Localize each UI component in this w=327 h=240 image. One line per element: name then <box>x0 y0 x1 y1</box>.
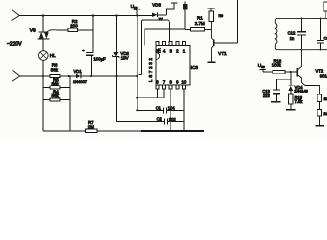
ground bar under C13 <box>271 101 280 103</box>
svg-text:9014: 9014 <box>320 74 327 79</box>
svg-text:1N4148: 1N4148 <box>294 89 308 94</box>
power Ucc symbol left <box>133 10 141 16</box>
resistor R7 <box>86 129 98 132</box>
row y98.3 to left vertical <box>137 97 157 99</box>
svg-text:7.5k: 7.5k <box>295 99 304 104</box>
svg-text:~220V: ~220V <box>7 42 22 48</box>
svg-text:1k: 1k <box>323 112 327 116</box>
svg-text:8k: 8k <box>324 97 327 101</box>
transistor VT1 <box>212 22 214 41</box>
IC3 body <box>156 46 190 86</box>
resistor R2 <box>57 29 94 31</box>
pin 10 down to bottom bus <box>183 89 185 131</box>
wire: top AC line <box>19 15 152 17</box>
wire y32 loop: left stub to dark resistor column <box>145 9 185 45</box>
wire: down to triac VS <box>42 16 44 32</box>
svg-text:2M: 2M <box>88 125 94 130</box>
svg-text:HL: HL <box>50 53 56 58</box>
svg-text:VD3: VD3 <box>152 3 161 8</box>
svg-text:200: 200 <box>70 23 78 28</box>
triac VS <box>38 30 57 39</box>
resistor R6 <box>50 74 60 77</box>
input arrow top <box>12 10 20 21</box>
wire: triac to lamp <box>42 39 44 51</box>
wire loop to IC pin 3 top <box>139 20 170 75</box>
svg-text:Ucc: Ucc <box>258 63 265 69</box>
top right clipped resistor <box>324 2 327 11</box>
left bus down <box>42 76 44 131</box>
svg-text:2.7M: 2.7M <box>195 21 205 26</box>
IC bottom pin stubs <box>156 85 159 89</box>
U loop pins 6,7 to row <box>158 89 165 98</box>
resistor R4 <box>50 98 60 101</box>
svg-text:1n: 1n <box>290 36 295 41</box>
svg-text:56k: 56k <box>52 81 60 86</box>
wire jog C13 to VD4 column <box>276 78 291 80</box>
svg-text:R1: R1 <box>197 16 203 21</box>
ground bar under R19 <box>286 109 295 111</box>
svg-text:1N4007: 1N4007 <box>73 79 88 84</box>
svg-text:10: 10 <box>182 79 187 84</box>
dark resistor box top right <box>183 4 187 9</box>
svg-text:C2: C2 <box>157 117 163 122</box>
zener column continues to C2 row <box>117 76 159 122</box>
svg-text:VS: VS <box>30 27 36 32</box>
pin 8 down to bottom bus <box>170 89 172 131</box>
bottom bus <box>43 130 141 132</box>
input arrow bottom <box>12 70 20 81</box>
power bar above VT1 <box>207 8 215 11</box>
emitter resistor 1 <box>317 94 321 101</box>
IC top pin stubs <box>156 42 159 46</box>
node junction cap column <box>92 14 94 16</box>
svg-text:100k: 100k <box>272 63 282 68</box>
svg-text:C1: C1 <box>324 36 327 41</box>
emitter resistor 2 <box>317 110 321 117</box>
svg-text:104: 104 <box>168 106 176 111</box>
antenna vertical <box>237 0 239 43</box>
svg-text:VD1: VD1 <box>74 69 83 74</box>
right bus of stack <box>69 76 71 131</box>
lamp HL <box>39 51 49 61</box>
svg-text:IC3: IC3 <box>191 65 199 70</box>
capacitor C2 row <box>159 121 184 123</box>
right column capacitor (in x320 column) <box>320 18 322 40</box>
svg-text:15V: 15V <box>121 55 129 60</box>
wire: lamp down to line2 <box>42 60 44 76</box>
wire down from R2 node <box>92 16 94 53</box>
capacitor C1 row <box>137 109 184 111</box>
svg-text:56k: 56k <box>51 68 59 73</box>
svg-text:LS7232: LS7232 <box>148 56 153 82</box>
resistor R19 vertical <box>289 94 293 104</box>
diode VD4 <box>290 72 292 79</box>
wire: bottom AC line <box>20 75 138 77</box>
node junctions on bottom AC line <box>42 75 44 77</box>
zener diode VD2 <box>116 16 118 53</box>
node junction zener column <box>115 14 117 16</box>
power bar above VD3 <box>167 3 178 15</box>
svg-text:100μF: 100μF <box>93 57 106 62</box>
resistor R5 <box>50 86 60 89</box>
svg-text:223: 223 <box>263 93 271 98</box>
transistor VT2 <box>296 68 298 77</box>
svg-text:Ucc: Ucc <box>131 4 138 10</box>
vertical from line1 to U-row <box>136 16 138 111</box>
svg-text:56k: 56k <box>52 93 60 98</box>
capacitor C12 <box>301 18 303 31</box>
svg-text:C1: C1 <box>156 105 162 110</box>
svg-text:VT1: VT1 <box>218 51 227 56</box>
ground bar bottom right <box>315 125 324 127</box>
capacitor C13 <box>275 79 277 89</box>
svg-text:R9: R9 <box>219 14 224 18</box>
LC tank inductor <box>275 18 327 23</box>
node junction VS column <box>42 14 44 16</box>
capacitor 100uF polarized <box>86 53 94 56</box>
resistor R9 vertical above VT1 <box>209 11 214 22</box>
